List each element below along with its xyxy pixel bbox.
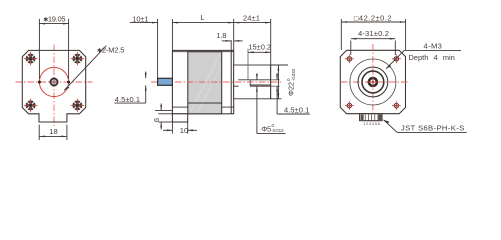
dim 6 — [155, 109, 172, 111]
rear shaft flat line — [250, 84, 270, 86]
M2.5 hole right — [67, 81, 70, 84]
dim phi22 ext lines — [271, 64, 288, 66]
M3 hole top-right — [392, 54, 401, 63]
svg-text:24±1: 24±1 — [243, 13, 260, 22]
svg-text:Depth 4 min: Depth 4 min — [408, 53, 454, 62]
centerline vertical — [53, 45, 55, 127]
centerline horizontal — [16, 81, 93, 83]
dim 19.05 extension lines — [38, 19, 40, 79]
shaft end — [51, 79, 57, 85]
ext lines for rear flat dim — [271, 79, 280, 81]
dim L — [172, 22, 233, 24]
dim phi5 rear — [256, 73, 258, 80]
svg-text:✱19.05: ✱19.05 — [43, 15, 65, 24]
mounting hole top-right — [71, 52, 85, 66]
laminations — [188, 52, 222, 114]
front shaft — [158, 78, 173, 85]
label 4-M3 depth — [404, 49, 461, 51]
label JST connector — [397, 131, 467, 133]
connector rear view — [360, 114, 382, 121]
svg-text:18: 18 — [49, 127, 57, 136]
bearing ring — [369, 78, 377, 86]
M3 hole bottom-right — [392, 101, 401, 110]
svg-text:-0.013: -0.013 — [272, 128, 284, 133]
flange outline — [340, 50, 405, 113]
svg-text:4-M3: 4-M3 — [424, 42, 443, 51]
svg-text:□42.2±0.2: □42.2±0.2 — [354, 14, 392, 23]
lamination inner line — [188, 102, 222, 104]
svg-text:15±0.2: 15±0.2 — [248, 42, 271, 51]
ext front face top — [171, 19, 173, 50]
cap chamfer line bottom rear — [222, 106, 234, 108]
flat start edge — [249, 80, 251, 86]
cap chamfer line top — [172, 51, 233, 53]
mounting hole bottom-left — [24, 99, 38, 113]
bolt circle 19.05 — [39, 67, 68, 96]
pilot circle — [358, 67, 388, 97]
ext rear end — [270, 19, 272, 99]
svg-text:Φ22: Φ22 — [287, 82, 296, 96]
dim 10 bottom — [171, 122, 173, 134]
dim 31 ext lines — [350, 41, 352, 56]
svg-text:-0.033: -0.033 — [291, 69, 296, 81]
ext rear face — [233, 19, 235, 50]
rear shaft stub bottom — [234, 85, 239, 87]
svg-text:Φ5: Φ5 — [261, 124, 271, 133]
svg-text:123456: 123456 — [363, 122, 380, 126]
dim 42.2 — [341, 21, 405, 23]
rear shaft stub top — [238, 79, 270, 81]
dim 31 — [351, 38, 396, 40]
dim 18 — [39, 135, 67, 137]
svg-text:JST S6B-PH-K-S: JST S6B-PH-K-S — [401, 123, 465, 132]
label phi22 tolerance — [286, 69, 296, 96]
svg-text:4.5±0.1: 4.5±0.1 — [115, 95, 140, 104]
rear plate line — [230, 50, 232, 113]
motor body outline — [172, 50, 233, 113]
svg-text:L: L — [200, 13, 204, 22]
svg-text:✱2-M2.5: ✱2-M2.5 — [97, 45, 124, 54]
big circle — [350, 59, 396, 105]
label phi5 tolerance — [257, 132, 286, 134]
dim 24+-1 — [234, 22, 271, 24]
label 2-M2.5 leader — [64, 46, 106, 91]
connector pins — [361, 114, 364, 120]
M2.5 hole left — [38, 81, 41, 84]
flange outline with bottom tab — [22, 50, 85, 122]
M3 hole bottom-left — [345, 101, 354, 110]
svg-text:10: 10 — [180, 126, 188, 135]
mounting hole top-left — [24, 52, 38, 66]
ext shaft tip — [157, 19, 159, 78]
M3 hole top-left — [345, 54, 354, 63]
mounting hole bottom-right — [71, 99, 85, 113]
svg-text:6: 6 — [152, 118, 161, 122]
dim phi22 — [277, 65, 279, 99]
svg-text:1.8: 1.8 — [216, 31, 226, 40]
centerline vertical — [372, 44, 374, 122]
rear cover — [234, 65, 271, 99]
svg-text:4.5±0.1: 4.5±0.1 — [284, 105, 309, 114]
cap chamfer line bottom front — [172, 106, 187, 108]
centerline middle view — [151, 81, 283, 83]
dim 4.5 right (rear flat) — [276, 73, 278, 80]
inner circle — [362, 71, 384, 93]
dim 42.2 ext lines — [340, 19, 342, 50]
dim 18 extension lines — [38, 125, 40, 140]
dim 4.5 left (front shaft) — [145, 72, 147, 79]
connector tab side — [172, 114, 187, 122]
centerline horizontal — [341, 81, 408, 83]
svg-text:4-31±0.2: 4-31±0.2 — [358, 29, 389, 38]
dim 19.05 — [39, 23, 68, 25]
